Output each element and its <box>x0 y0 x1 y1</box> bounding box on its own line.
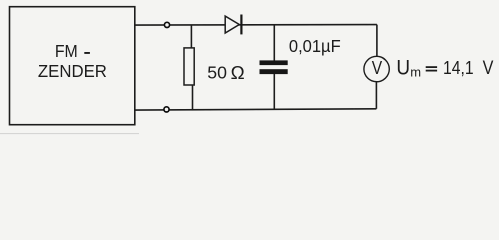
voltmeter V <box>364 56 389 81</box>
label 0,01uF <box>289 36 341 56</box>
wire: right vertical from corner down to voltmeter top <box>376 25 378 57</box>
terminal top (output node) <box>164 22 169 27</box>
svg-text:V: V <box>372 57 383 78</box>
svg-text:50: 50 <box>207 62 227 82</box>
wire: vertical from voltmeter bottom to bottom-right corner <box>375 82 377 109</box>
wire: bottom horizontal from bottom-right corner to box <box>135 109 377 110</box>
svg-text:U: U <box>396 56 410 79</box>
resistor 50 ohm <box>184 48 194 85</box>
wire: capacitor bottom lead <box>273 74 275 110</box>
wire: top horizontal from box to top-right corner <box>135 24 377 27</box>
label ZENDER <box>38 61 107 81</box>
wire: resistor top lead <box>190 25 192 48</box>
label Um = 14,1 V <box>396 56 493 79</box>
svg-text:14,1: 14,1 <box>443 57 474 78</box>
svg-text:Ω: Ω <box>231 62 245 83</box>
svg-text:m: m <box>410 64 421 79</box>
capacitor 0,01uF <box>260 60 288 74</box>
label FM - <box>55 41 90 61</box>
wire: capacitor top lead <box>273 25 275 61</box>
scan smudge bottom left <box>0 133 139 134</box>
terminal bottom (output node) <box>164 107 169 112</box>
paper background <box>0 0 499 137</box>
svg-text:V: V <box>483 58 494 79</box>
label 50 ohm <box>207 62 244 83</box>
diode <box>225 15 241 35</box>
svg-text:0,01µF: 0,01µF <box>289 36 341 56</box>
svg-text:ZENDER: ZENDER <box>38 61 107 81</box>
svg-text:FM: FM <box>55 41 78 61</box>
FM transmitter box (FM - ZENDER) <box>10 7 135 125</box>
wire: resistor bottom lead <box>192 85 194 110</box>
